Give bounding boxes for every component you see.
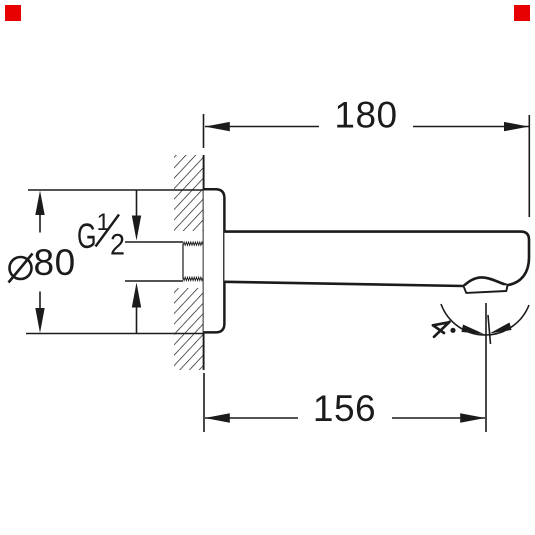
dimension 156: left extension line <box>203 373 205 432</box>
dimension 156: right extension line / outlet axis <box>485 303 487 432</box>
svg-text:2: 2 <box>110 229 125 262</box>
wall hatch upper part <box>174 155 204 231</box>
G1/2 thread dimension: top extension line <box>125 241 183 243</box>
threaded pipe left edge <box>182 244 184 280</box>
4 degree angle: left arrowhead <box>462 325 485 335</box>
4 degree angle: label "4" with degree dot <box>433 322 450 337</box>
4 degree angle: arc <box>441 304 529 335</box>
dimension diameter 80: bottom extension line <box>26 333 204 335</box>
thread zigzag top <box>183 242 203 245</box>
dimension diameter 80: top extension line <box>28 189 204 191</box>
dimension diameter 80: lower arrow (pointing down) <box>39 292 41 311</box>
svg-text:156: 156 <box>313 388 376 429</box>
red fiducial square top-right <box>514 5 530 21</box>
wall face line <box>203 155 205 370</box>
dimension 156: right arrowhead <box>460 413 485 422</box>
dimension 156: dimension line left segment <box>205 417 298 419</box>
wall hatch lower part <box>174 288 204 370</box>
svg-text:80: 80 <box>34 242 76 283</box>
dimension 180: right arrowhead <box>504 122 529 131</box>
G1/2 thread dimension: upper arrow (pointing down) <box>136 190 138 217</box>
dimension 180: left arrowhead <box>205 122 230 131</box>
red fiducial square top-left <box>5 5 21 21</box>
dimension 156: left arrowhead <box>205 413 230 422</box>
dimension diameter 80: upper arrow (pointing up) <box>39 214 41 233</box>
dimension 180: right extension line <box>528 115 530 217</box>
svg-text:1: 1 <box>97 209 110 236</box>
thread zigzag bottom <box>183 277 203 280</box>
spout body outline <box>224 232 529 286</box>
4 degree angle: right arrowhead <box>490 323 512 334</box>
flange (side view of round escutcheon) <box>204 189 225 332</box>
svg-text:180: 180 <box>334 95 397 136</box>
dimension 180: dimension line left segment <box>205 126 319 128</box>
aerator ring under tip <box>464 285 508 293</box>
dimension 156: dimension line right segment <box>392 417 485 419</box>
svg-text:G: G <box>77 217 97 256</box>
G1/2 thread dimension: lower arrow (pointing up) <box>136 307 138 334</box>
4 degree angle: tip face line (tilted) <box>488 315 491 344</box>
G1/2 thread dimension: bottom extension line <box>125 280 183 282</box>
dimension 180: left extension line <box>203 114 205 148</box>
dimension diameter 80: diameter symbol <box>10 257 32 279</box>
dimension 180: dimension line right segment <box>413 126 529 128</box>
